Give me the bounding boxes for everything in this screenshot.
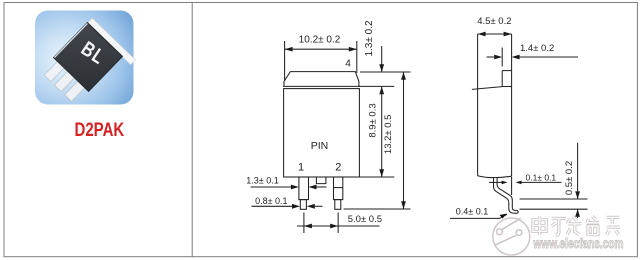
middle cut pin stub [316,177,326,183]
svg-text:www.elecfans.com: www.elecfans.com [533,236,624,251]
leg 2 [54,71,75,92]
svg-text:D2PAK: D2PAK [75,119,125,140]
leg 3 [65,81,86,102]
dimension 0.4±0.1 (foot thickness leader) [450,214,507,218]
pin 2 tip [335,200,341,210]
side view body top slant [472,87,502,90]
watermark logo circle [493,218,530,255]
svg-text:8.9± 0.3: 8.9± 0.3 [368,103,379,137]
dimension 8.9±0.3 (body height) [381,86,383,177]
dimension 1.3±0.1 (pin width) [251,186,344,189]
D2PAK icon chip group [40,18,135,113]
svg-text:0.4± 0.1: 0.4± 0.1 [456,207,488,217]
watermark chinese glyphs (simulated) [533,216,620,235]
side view foot tip [516,210,518,213]
dimension 0.8±0.1 (pin tip width) [252,205,323,207]
svg-text:4.5± 0.2: 4.5± 0.2 [477,16,511,27]
front view body [284,89,360,177]
svg-text:4: 4 [345,58,351,69]
svg-text:1.3± 0.2: 1.3± 0.2 [364,20,375,57]
side view bottom edge [478,176,512,178]
dimension 0.1±0.1 (foot offset) [489,177,562,195]
chip body [54,23,123,92]
dimension 0.5±0.2 (standoff) [520,143,588,218]
D2PAK icon blue tile [35,11,134,105]
dimension 5.0±0.5 (pin pitch) [297,213,380,234]
dimension 4.5±0.2 (side width) [478,32,512,37]
pin 1 tip [300,200,306,210]
front view labels [298,58,351,173]
svg-text:1: 1 [298,162,304,174]
metal tab behind chip [87,18,135,65]
svg-text:0.8± 0.1: 0.8± 0.1 [255,196,287,206]
chip edge highlight [54,23,87,57]
leg 1 [44,61,65,82]
panel divider line [191,3,193,257]
svg-text:1.4± 0.2: 1.4± 0.2 [520,43,554,54]
svg-text:13.2± 0.5: 13.2± 0.5 [383,115,394,155]
side view pin back face [497,178,516,211]
svg-text:2: 2 [335,162,341,174]
svg-text:1.3± 0.1: 1.3± 0.1 [246,175,278,185]
svg-text:PIN: PIN [311,140,329,152]
front view tab outline [284,72,359,87]
side view pin front face [494,178,517,214]
svg-text:10.2± 0.2: 10.2± 0.2 [299,34,341,45]
pin 1 upper [299,177,309,200]
dimension 1.4±0.2 (tab thickness) [487,48,579,67]
side view back face [511,34,513,176]
svg-text:0.5± 0.2: 0.5± 0.2 [564,161,575,195]
svg-text:5.0± 0.5: 5.0± 0.5 [348,214,382,225]
dimension 1.3±0.2 (tab height) [358,46,411,86]
dimension 13.2±0.5 (total height) [344,72,411,209]
dimension 10.2±0.2 (front width) [285,41,357,81]
side view top edge / 4.5 dim line [478,33,512,35]
svg-text:0.1± 0.1: 0.1± 0.1 [526,173,557,183]
pin 2 upper [334,177,343,200]
side view tab step [502,70,511,72]
side view front face [477,34,479,176]
